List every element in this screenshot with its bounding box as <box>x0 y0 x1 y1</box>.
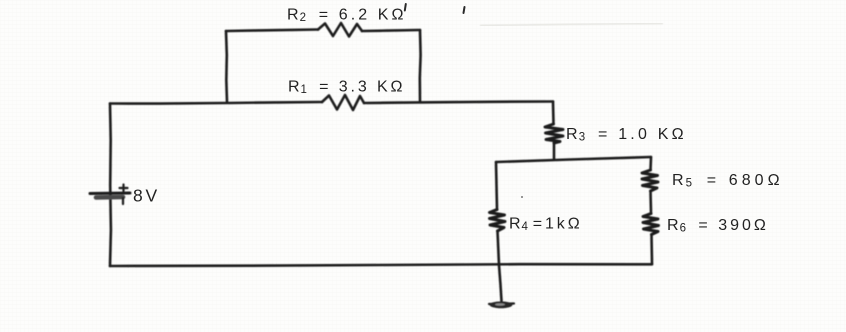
wire bottom horizontal <box>110 264 652 266</box>
wire R4 branch lower <box>498 231 502 301</box>
wire main horizontal left <box>110 102 322 104</box>
wire R3 branch bottom <box>553 143 556 159</box>
wire top-loop left vertical <box>226 31 227 102</box>
wire left vertical <box>109 104 113 267</box>
wire main horizontal right <box>364 102 553 104</box>
wire right branch bottom <box>650 235 653 265</box>
faint scan streak <box>480 24 663 26</box>
wire right branch middle <box>649 191 652 214</box>
speck above R4 <box>521 196 523 198</box>
resistor R6 <box>643 214 659 235</box>
tick mark 2 <box>464 7 465 13</box>
battery 8V <box>90 185 130 205</box>
wire R3 branch top <box>552 102 555 125</box>
tick mark 1 <box>405 4 406 11</box>
wire top right segment <box>362 30 420 31</box>
resistor R2 <box>318 23 362 37</box>
wire right branch top <box>649 157 652 170</box>
wire top left segment <box>226 30 318 32</box>
ground <box>489 301 514 308</box>
resistor R4 <box>490 210 506 232</box>
svg-text:8V: 8V <box>133 186 160 206</box>
wire mid horizontal <box>496 157 651 162</box>
resistor R3 <box>545 124 563 143</box>
wire R4 branch top <box>496 162 497 210</box>
wire top-loop right vertical <box>418 30 421 102</box>
resistor R5 <box>642 170 658 191</box>
svg-text:R4=1kΩ: R4=1kΩ <box>509 216 583 234</box>
resistor R1 <box>322 95 364 110</box>
